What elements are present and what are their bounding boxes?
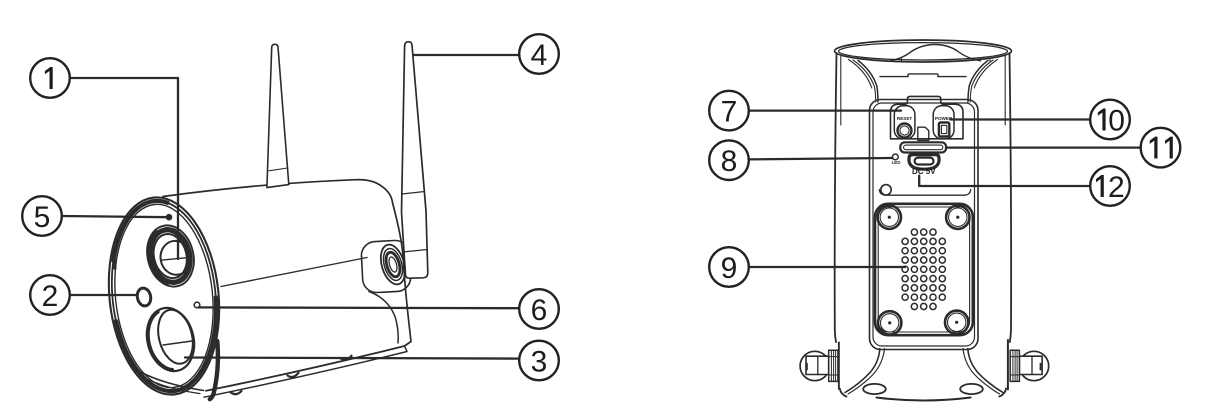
- svg-text:8: 8: [721, 145, 738, 178]
- svg-text:RESET: RESET: [897, 116, 913, 121]
- svg-text:9: 9: [721, 252, 738, 285]
- svg-text:2: 2: [42, 280, 59, 313]
- svg-text:2: 2: [1108, 171, 1125, 204]
- svg-text:3: 3: [531, 345, 548, 378]
- svg-text:5: 5: [34, 201, 51, 234]
- svg-text:0: 0: [1108, 104, 1125, 137]
- svg-text:4: 4: [531, 39, 548, 72]
- svg-text:6: 6: [531, 294, 548, 327]
- svg-text:DC 5V: DC 5V: [912, 167, 936, 176]
- svg-text:LED: LED: [892, 160, 901, 165]
- svg-text:7: 7: [721, 96, 738, 129]
